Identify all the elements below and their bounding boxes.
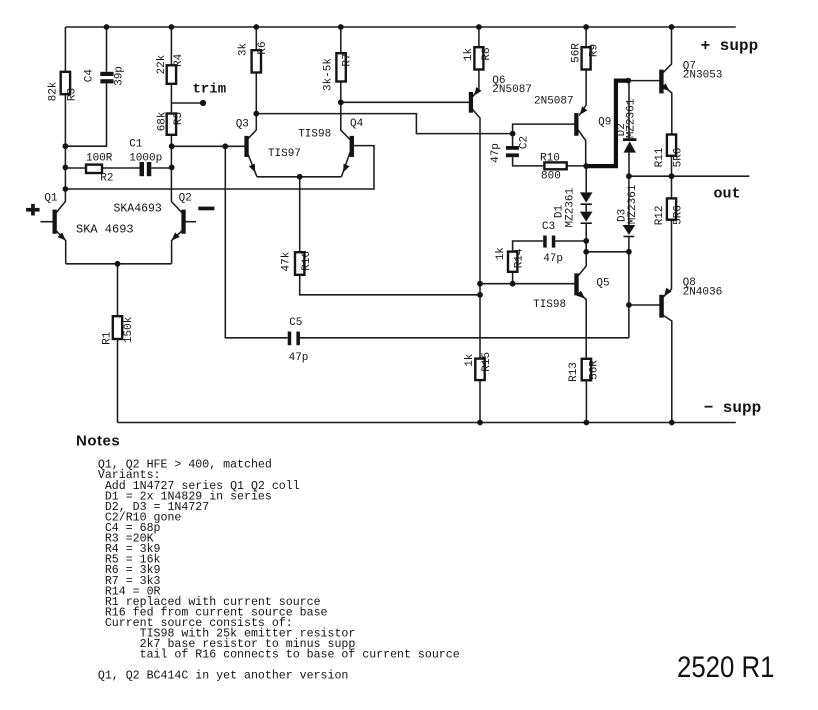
svg-text:R5: R5 — [173, 112, 185, 125]
svg-text:R15: R15 — [481, 352, 493, 372]
svg-text:2520 R1: 2520 R1 — [677, 651, 775, 684]
svg-text:1000p: 1000p — [129, 152, 162, 164]
svg-text:trim: trim — [193, 82, 227, 98]
svg-text:C2: C2 — [519, 136, 531, 149]
svg-text:R11: R11 — [654, 147, 666, 167]
svg-text:56R: 56R — [570, 43, 582, 63]
svg-text:out: out — [714, 186, 741, 203]
svg-text:R10: R10 — [540, 152, 560, 164]
svg-text:2N3053: 2N3053 — [683, 70, 723, 82]
svg-text:2N5087: 2N5087 — [492, 84, 532, 96]
svg-text:Q1: Q1 — [44, 192, 58, 204]
svg-text:R12: R12 — [654, 205, 666, 225]
svg-text:R13: R13 — [568, 362, 580, 382]
svg-text:82k: 82k — [48, 81, 60, 101]
svg-text:Q9: Q9 — [598, 117, 611, 129]
svg-text:Q2: Q2 — [179, 192, 192, 204]
svg-text:Q1, Q2 BC414C in yet another v: Q1, Q2 BC414C in yet another version — [98, 670, 348, 683]
svg-text:− supp: − supp — [704, 399, 762, 417]
svg-text:TIS98: TIS98 — [298, 129, 331, 141]
svg-text:TIS97: TIS97 — [268, 148, 301, 160]
svg-text:R8: R8 — [481, 47, 493, 60]
svg-text:150k: 150k — [123, 316, 135, 343]
svg-text:MZ2361: MZ2361 — [627, 184, 639, 224]
svg-text:MZ2361: MZ2361 — [625, 98, 637, 138]
svg-text:Q4: Q4 — [350, 118, 364, 130]
svg-text:C5: C5 — [289, 317, 302, 329]
svg-text:R1: R1 — [102, 331, 114, 345]
svg-text:1k: 1k — [464, 353, 476, 367]
svg-text:R14: R14 — [514, 248, 526, 268]
svg-text:3k: 3k — [237, 43, 249, 57]
svg-text:2N5087: 2N5087 — [534, 95, 574, 107]
svg-text:SKA4693: SKA4693 — [114, 202, 162, 215]
svg-text:5R6: 5R6 — [673, 205, 685, 225]
svg-text:C4: C4 — [84, 69, 96, 83]
svg-text:800: 800 — [541, 170, 561, 182]
svg-text:5R6: 5R6 — [673, 148, 685, 168]
svg-text:R16: R16 — [301, 251, 313, 271]
svg-text:22k: 22k — [156, 54, 168, 74]
svg-text:C1: C1 — [129, 138, 143, 150]
svg-text:R3: R3 — [67, 88, 79, 101]
svg-text:R4: R4 — [173, 53, 185, 67]
svg-text:Q5: Q5 — [596, 278, 609, 290]
svg-text:R7: R7 — [342, 53, 354, 66]
svg-text:100R: 100R — [86, 153, 113, 165]
svg-text:R2: R2 — [100, 172, 113, 184]
svg-text:1k: 1k — [463, 48, 475, 62]
svg-text:1k: 1k — [495, 247, 507, 261]
svg-text:47p: 47p — [543, 253, 563, 265]
svg-text:R9: R9 — [588, 44, 600, 57]
svg-text:3k-5k: 3k-5k — [322, 58, 334, 91]
svg-text:47p: 47p — [289, 352, 309, 364]
svg-text:47k: 47k — [281, 251, 293, 271]
svg-text:+ supp: + supp — [701, 37, 759, 55]
svg-text:68k: 68k — [157, 111, 169, 131]
svg-text:39p: 39p — [114, 66, 126, 86]
svg-text:Notes: Notes — [76, 433, 120, 450]
svg-text:C3: C3 — [542, 221, 555, 233]
svg-text:Q3: Q3 — [236, 119, 249, 131]
svg-text:R6: R6 — [257, 41, 269, 54]
svg-text:MZ2361: MZ2361 — [564, 187, 576, 227]
svg-text:47p: 47p — [490, 143, 502, 163]
svg-text:56R: 56R — [589, 360, 601, 380]
svg-text:TIS98: TIS98 — [533, 299, 566, 311]
svg-text:2N4036: 2N4036 — [683, 287, 723, 299]
svg-text:tail of R16 connects to base o: tail of R16 connects to base of current … — [98, 649, 460, 662]
svg-text:SKA 4693: SKA 4693 — [76, 223, 134, 237]
